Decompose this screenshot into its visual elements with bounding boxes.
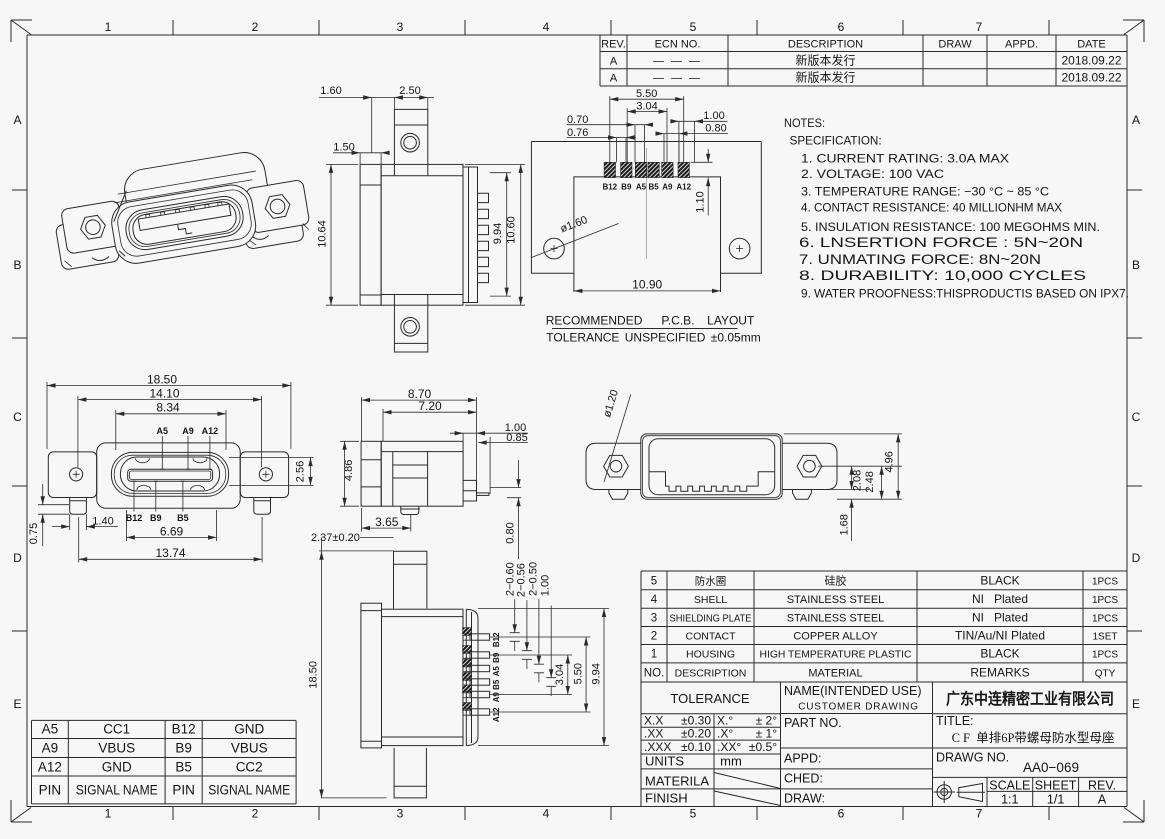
svg-text:APPD:: APPD: [784,752,822,766]
svg-text:1. CURRENT RATING: 3.0A MA: 1. CURRENT RATING: 3.0A MAX [801,152,1009,166]
svg-text:PIN: PIN [39,783,62,798]
svg-text:1PCS: 1PCS [1092,613,1118,624]
svg-text:RECOMMENDED P.C.B. LAYOUT: RECOMMENDED P.C.B. LAYOUT [546,314,755,328]
svg-text:4.96: 4.96 [883,451,895,472]
dim 10.60 [465,164,525,305]
svg-text:2.56: 2.56 [295,461,307,482]
tongue contacts [146,202,222,218]
name column texts [784,684,922,806]
svg-text:VBUS: VBUS [231,741,268,756]
dim 5.50 [490,637,591,712]
svg-text:SCALE: SCALE [989,779,1030,793]
svg-text:SHELL: SHELL [694,594,727,606]
svg-text:18.50: 18.50 [307,661,319,689]
svg-text:1.50: 1.50 [333,141,354,153]
svg-text:1.10: 1.10 [694,191,706,212]
svg-text:NOTES:: NOTES: [784,116,825,130]
flange column [361,603,382,748]
svg-text:— — —: — — — [653,73,702,85]
foot left [609,490,628,500]
dim 2.08 [851,466,853,489]
svg-text:3.65: 3.65 [375,515,399,529]
svg-text:CUSTOMER DRAWING: CUSTOMER DRAWING [798,702,919,713]
revision table [600,35,1127,86]
footprint body [574,177,721,292]
svg-text:TOLERANCE UNSPECIFIED ±0.05m: TOLERANCE UNSPECIFIED ±0.05mm [546,331,760,345]
svg-text:1:1: 1:1 [1001,793,1018,807]
foot [401,506,420,514]
zone numbers [105,20,983,821]
svg-text:7: 7 [976,807,983,821]
svg-text:A: A [610,73,618,85]
svg-text:QTY: QTY [1095,668,1116,679]
svg-text:AA0−069: AA0−069 [1023,760,1079,775]
zone ticks top/bottom [173,20,1049,820]
svg-text:10.64: 10.64 [317,220,329,248]
svg-text:2−0.56: 2−0.56 [516,563,528,597]
svg-text:PART NO.: PART NO. [784,716,842,730]
dim 4.96 [897,434,899,499]
svg-text:DESCRIPTION: DESCRIPTION [675,667,747,679]
svg-text:8.34: 8.34 [156,401,180,415]
svg-text:3.04: 3.04 [636,100,657,112]
view: side section (middle) [340,387,528,559]
ear right front face [240,196,305,250]
rear shield edge [466,609,478,745]
svg-text:±0.30: ±0.30 [681,713,711,727]
contact bumps [136,458,208,490]
opening [649,439,775,495]
svg-text:5: 5 [651,575,657,587]
svg-text:B9: B9 [621,183,632,192]
ear left edge lines [63,243,125,267]
plate outline with wings [531,142,761,274]
svg-text:9.94: 9.94 [492,223,504,244]
svg-text:B5: B5 [177,513,189,523]
svg-text:TIN/Au/NI Plated: TIN/Au/NI Plated [955,629,1045,643]
svg-text:5: 5 [690,20,697,34]
svg-text:A12: A12 [202,426,219,436]
svg-text:6. LNSERTION FORCE : 5N~20: 6. LNSERTION FORCE : 5N~20N [799,234,1083,250]
svg-text:1SET: 1SET [1092,632,1117,643]
body [381,441,463,506]
seal ring [123,194,246,253]
top band seam lines [113,171,257,203]
left end connector edges [109,191,137,258]
plug slot [120,457,219,491]
svg-text:8. DURABILITY: 10,000 CYC: 8. DURABILITY: 10,000 CYCLES [799,267,1086,283]
svg-text:B12: B12 [492,632,501,647]
svg-text:2: 2 [651,631,657,643]
ear right edge lines [248,223,310,246]
tab top [394,551,427,608]
svg-text:DRAWG NO.: DRAWG NO. [936,751,1009,765]
mounting holes [544,238,565,259]
svg-text:UNITS: UNITS [645,754,684,769]
svg-text:BLACK: BLACK [980,647,1019,661]
svg-text:7.20: 7.20 [418,399,442,413]
leg left [70,498,87,515]
svg-text:— — —: — — — [653,56,702,68]
svg-text:1PCS: 1PCS [1092,595,1118,606]
front rim [115,187,253,258]
svg-text:D: D [13,551,22,565]
hex nut right [797,455,822,477]
svg-text:BLACK: BLACK [980,573,1019,587]
svg-text:新版本发行: 新版本发行 [795,70,855,85]
crenellation [666,486,759,491]
svg-text:SIGNAL NAME: SIGNAL NAME [76,783,158,798]
svg-text:2.37±0.20: 2.37±0.20 [311,532,360,544]
svg-text:0.80: 0.80 [705,123,726,135]
body [381,164,463,305]
svg-text:HOUSING: HOUSING [686,649,735,661]
svg-text:A9: A9 [182,426,194,436]
slot [131,200,239,247]
svg-text:A: A [13,113,21,127]
svg-text:14.10: 14.10 [149,386,179,400]
dim 0.80 [490,460,521,559]
svg-text:A5: A5 [157,426,169,436]
svg-text:0.76: 0.76 [567,127,588,139]
solder pads B12 B9 A5 B5 A9 A12 [604,162,615,177]
svg-text:2018.09.22: 2018.09.22 [1061,54,1121,68]
svg-text:A: A [610,56,618,68]
svg-text:±0.10: ±0.10 [681,740,711,754]
inner steps [650,472,775,486]
svg-text:± 1°: ± 1° [756,726,778,740]
svg-text:B: B [13,258,21,272]
tab hole bottom [401,318,420,337]
svg-text:B9: B9 [150,513,162,523]
CC notch zigzag [178,222,193,235]
svg-text:2: 2 [252,20,259,34]
svg-text:A9: A9 [42,741,59,756]
svg-text:1: 1 [105,807,112,821]
svg-text:± 2°: ± 2° [756,713,778,727]
svg-text:A: A [1098,793,1107,807]
svg-text:ECN NO.: ECN NO. [655,39,701,51]
svg-text:D: D [1132,551,1141,565]
svg-text:TITLE:: TITLE: [936,714,974,728]
zone ticks left/right [12,190,1142,631]
svg-text:NI Plated: NI Plated [972,610,1028,624]
svg-text:2−0.60: 2−0.60 [504,562,516,596]
svg-text:C: C [1132,410,1141,424]
ear left [48,452,96,498]
svg-text:CHED:: CHED: [784,772,823,786]
svg-text:A5: A5 [492,666,501,677]
svg-text:A12: A12 [492,707,501,722]
hex nut right [263,194,291,220]
svg-text:1.00: 1.00 [539,575,551,596]
dim 18.50 [321,537,387,798]
body shell [97,443,241,508]
svg-text:B9: B9 [175,741,192,756]
svg-text:MATERILA: MATERILA [645,774,709,789]
mounting tab bottom [394,305,427,352]
svg-text:DRAW: DRAW [938,39,972,51]
svg-text:A12: A12 [38,760,62,775]
svg-text:STAINLESS STEEL: STAINLESS STEEL [787,594,885,606]
svg-text:.X°: .X° [717,726,733,740]
foot bumps [92,228,269,267]
svg-text:2.48: 2.48 [864,471,876,492]
svg-text:4: 4 [543,20,550,34]
svg-text:DRAW:: DRAW: [784,792,825,806]
tongue [128,469,213,481]
svg-text:4.86: 4.86 [343,460,355,481]
svg-text:A9: A9 [662,183,673,192]
svg-text:A5: A5 [636,183,647,192]
zone letters [13,113,1141,711]
flange [360,164,381,305]
svg-text:4: 4 [651,594,658,606]
svg-text:CC1: CC1 [103,722,130,737]
dim 2.48 [881,466,883,499]
body [382,609,464,745]
dim 9.94 [490,173,511,296]
svg-text:B5: B5 [175,760,192,775]
svg-text:A5: A5 [42,722,59,737]
view: front elevation [28,372,314,562]
svg-text:E: E [13,697,21,711]
svg-text:REV.: REV. [601,39,626,51]
view: rear elevation [586,388,902,541]
svg-text:COPPER ALLOY: COPPER ALLOY [793,631,878,643]
view: side elevation (top middle) [317,85,526,352]
svg-text:2.50: 2.50 [399,85,420,97]
svg-text:mm: mm [720,754,742,769]
svg-text:A: A [1132,113,1140,127]
dim 1.10 [691,149,713,216]
svg-text:E: E [1132,697,1140,711]
svg-text:.XX: .XX [644,726,663,740]
svg-text:CC2: CC2 [236,760,263,775]
scale sheet rev [989,779,1116,807]
svg-text:C: C [13,410,22,424]
foot right [793,490,812,500]
rear block and pin [463,480,476,501]
view: isometric projection [48,143,312,280]
svg-text:7: 7 [976,20,983,34]
svg-text:.XXX: .XXX [644,740,671,754]
body top face (behind) [121,149,271,234]
ear right top face [245,179,310,233]
mounting tab top [394,109,427,164]
svg-text:4. CONTACT RESISTANCE: 40: 4. CONTACT RESISTANCE: 40 MILLIONHM MAX [801,201,1062,215]
svg-text:广东中连精密工业有限公司: 广东中连精密工业有限公司 [946,689,1114,708]
ear left front face [55,216,120,270]
pins [463,628,472,636]
svg-text:C F 单排6P带螺母防水型母座: C F 单排6P带螺母防水型母座 [952,730,1115,745]
svg-text:B12: B12 [172,722,196,737]
svg-text:GND: GND [102,760,132,775]
view: recommended PCB layout [531,88,761,345]
BOM table [641,571,1127,682]
pin labels A5 A9 A12 [157,426,219,436]
seal ring outer [111,452,228,496]
svg-text:13.74: 13.74 [155,546,185,560]
svg-text:SHEET: SHEET [1035,779,1077,793]
svg-text:9.94: 9.94 [590,663,602,684]
dim 1.68 [851,499,853,541]
svg-text:TOLERANCE: TOLERANCE [670,691,750,706]
svg-text:9. WATER PROOFNESS:THISPRODU: 9. WATER PROOFNESS:THISPRODUCTIS BASED O… [801,287,1129,301]
svg-text:±0.5°: ±0.5° [749,740,777,754]
svg-text:VBUS: VBUS [98,741,135,756]
ear left [586,443,641,489]
pin signal table [32,720,297,804]
svg-text:NAME(INTENDED USE): NAME(INTENDED USE) [784,684,922,698]
tongue [138,204,231,231]
body front face [109,182,259,267]
svg-text:B12: B12 [126,513,143,523]
svg-text:10.60: 10.60 [506,216,518,244]
leg right [254,498,271,515]
svg-text:GND: GND [234,722,264,737]
ear right [782,443,837,489]
svg-text:B: B [1132,258,1140,272]
svg-text:B5: B5 [492,679,501,690]
dim 4.86 [340,441,359,506]
svg-text:.XX°: .XX° [717,740,741,754]
pin labels B12 B9 B5 [126,513,189,523]
svg-text:防水圈: 防水圈 [695,574,727,587]
svg-text:NI Plated: NI Plated [972,592,1028,606]
svg-text:STAINLESS STEEL: STAINLESS STEEL [787,612,885,624]
dim ext lines [784,434,902,499]
svg-text:SHIELDING PLATE: SHIELDING PLATE [670,612,752,624]
svg-text:1.60: 1.60 [320,85,341,97]
svg-text:±0.20: ±0.20 [681,726,711,740]
svg-text:SPECIFICATION:: SPECIFICATION: [790,134,882,148]
shield fingers [478,193,489,282]
svg-text:6: 6 [838,20,845,34]
svg-text:3: 3 [397,807,404,821]
svg-text:B9: B9 [492,652,501,663]
svg-text:0.70: 0.70 [567,114,588,126]
flange [361,441,381,506]
svg-text:1.40: 1.40 [92,516,113,528]
svg-text:A12: A12 [676,183,691,192]
svg-text:FINISH: FINISH [645,791,688,806]
svg-text:REMARKS: REMARKS [970,665,1029,679]
tab hole top [401,133,420,152]
svg-text:5.50: 5.50 [636,88,657,100]
notes text block [784,116,1129,301]
dim 0.75 [38,484,69,546]
svg-text:X.°: X.° [717,713,733,727]
svg-text:1PCS: 1PCS [1092,576,1118,587]
rear shield [463,167,478,303]
ear right [240,452,288,498]
svg-text:NO.: NO. [644,667,664,679]
dim 9.94 [478,609,609,746]
svg-text:CONTACT: CONTACT [686,631,737,643]
first angle projection symbol [934,781,986,803]
hex nut left [79,214,107,240]
svg-text:B5: B5 [648,183,659,192]
svg-text:3: 3 [397,20,404,34]
svg-text:5.50: 5.50 [572,663,584,684]
svg-text:DESCRIPTION: DESCRIPTION [788,39,863,51]
centerline [646,148,648,259]
hex nut left [604,455,629,477]
svg-text:2−0.50: 2−0.50 [527,562,539,596]
svg-text:APPD.: APPD. [1005,39,1038,51]
svg-text:SIGNAL NAME: SIGNAL NAME [208,783,290,798]
svg-text:A9: A9 [492,692,501,703]
svg-text:6: 6 [838,807,845,821]
svg-text:DATE: DATE [1077,39,1106,51]
svg-text:HIGH TEMPERATURE PLASTIC: HIGH TEMPERATURE PLASTIC [760,649,912,661]
svg-text:PIN: PIN [172,783,195,798]
svg-text:7. UNMATING FORCE: 8N~20N: 7. UNMATING FORCE: 8N~20N [799,251,1041,267]
svg-text:3: 3 [651,612,657,624]
svg-text:新版本发行: 新版本发行 [795,53,855,68]
dim 10.64 [326,164,358,305]
svg-text:18.50: 18.50 [147,372,177,386]
ear left top face [61,200,126,254]
svg-text:1/1: 1/1 [1047,793,1064,807]
svg-text:0.75: 0.75 [28,523,40,544]
svg-text:10.90: 10.90 [632,277,662,291]
svg-text:2. VOLTAGE: 100 VAC: 2. VOLTAGE: 100 VAC [801,167,944,181]
leader dia 1.20 [604,394,631,482]
dim 3.04 [490,655,572,695]
svg-text:3.04: 3.04 [554,664,566,685]
svg-text:1: 1 [651,649,657,661]
dim 2.56 [229,458,314,486]
svg-text:MATERIAL: MATERIAL [808,667,862,679]
svg-text:1.68: 1.68 [838,514,850,535]
title block [641,682,1127,807]
svg-text:0.80: 0.80 [505,522,517,543]
svg-text:4: 4 [543,807,550,821]
svg-text:1.00: 1.00 [703,110,724,122]
svg-text:2018.09.22: 2018.09.22 [1061,71,1121,85]
tab bottom [394,748,426,798]
tolerance texts [644,691,777,806]
crossed-out cells [714,773,781,806]
svg-text:6.69: 6.69 [160,524,184,538]
shell outer [641,434,782,499]
svg-text:2: 2 [252,807,259,821]
svg-text:2.08: 2.08 [852,470,864,491]
svg-text:5. INSULATION RESISTANCE: 1: 5. INSULATION RESISTANCE: 100 MEGOHMS MI… [801,220,1100,234]
seal ring inner [114,455,226,493]
svg-text:B12: B12 [602,183,617,192]
svg-text:硅胶: 硅胶 [825,573,847,587]
svg-text:X.X: X.X [644,713,663,727]
svg-text:REV.: REV. [1088,779,1116,793]
svg-text:1: 1 [105,20,112,34]
svg-text:3. TEMPERATURE RANGE: −30 °: 3. TEMPERATURE RANGE: −30 °C ~ 85 °C [801,185,1049,199]
svg-text:5: 5 [690,807,697,821]
leader dia 1.60 [532,224,619,258]
svg-text:1PCS: 1PCS [1092,650,1118,661]
view: bottom (pin side) [307,532,609,798]
